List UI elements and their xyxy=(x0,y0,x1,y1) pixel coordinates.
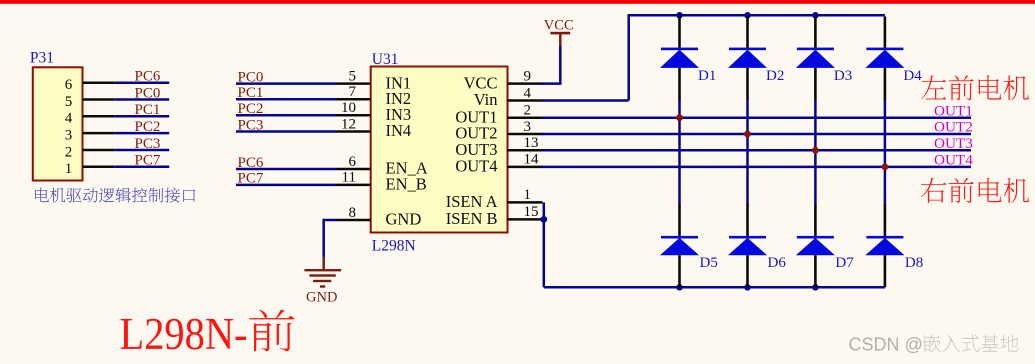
svg-text:11: 11 xyxy=(342,170,356,186)
wire U31 pin 8 to ground xyxy=(324,219,337,222)
svg-text:2: 2 xyxy=(65,144,73,160)
junction on bottom rail at D6 xyxy=(744,284,751,291)
U31 pin 7 (IN2) xyxy=(337,98,371,101)
svg-text:OUT4: OUT4 xyxy=(934,152,973,169)
svg-text:D2: D2 xyxy=(766,68,784,84)
svg-text:PC3: PC3 xyxy=(135,136,161,152)
wire net PC7 (to U31) xyxy=(236,184,337,187)
svg-text:D5: D5 xyxy=(700,255,718,271)
caption text 电机驱动逻辑控制接口 xyxy=(35,188,195,203)
svg-text:14: 14 xyxy=(524,152,540,168)
wire net PC7 (from P31 pin 1) xyxy=(115,166,169,169)
U31 pin 2 (OUT1) xyxy=(508,116,543,119)
svg-text:GND: GND xyxy=(386,210,422,229)
svg-text:1: 1 xyxy=(524,187,532,203)
wire net PC6 (to U31) xyxy=(236,168,337,171)
junction on rail at D2 xyxy=(744,12,751,19)
wire net PC6 (from P31 pin 6) xyxy=(115,81,169,84)
U31 pin 12 (IN4) xyxy=(337,130,371,133)
svg-text:PC7: PC7 xyxy=(135,153,161,169)
junction on rail at D1 xyxy=(676,12,683,19)
wire net PC2 (to U31) xyxy=(236,114,337,117)
diode D7 xyxy=(814,204,817,236)
op-amp/driver IC U31 (L298N) body xyxy=(371,67,508,233)
wire net PC1 (from P31 pin 4) xyxy=(115,115,169,118)
wire D4/D8 to OUT4 xyxy=(884,99,887,205)
svg-text:OUT3: OUT3 xyxy=(934,135,973,152)
diode D6 xyxy=(746,204,749,236)
svg-text:PC0: PC0 xyxy=(135,85,161,101)
text 右前电机 (right front motor) xyxy=(921,178,1029,203)
svg-text:12: 12 xyxy=(341,116,356,132)
title text 前 xyxy=(249,310,294,352)
svg-text:13: 13 xyxy=(524,135,539,151)
svg-text:L298N: L298N xyxy=(372,238,416,255)
diode D1 xyxy=(678,17,681,48)
diode D8 xyxy=(884,204,887,236)
svg-text:4: 4 xyxy=(524,85,532,101)
connector P31 xyxy=(33,67,83,180)
junction on bottom rail at D7 xyxy=(812,284,819,291)
wire D1/D5 to OUT1 xyxy=(678,99,681,205)
wire net OUT4 xyxy=(542,166,972,169)
text 左前电机 (left front motor) xyxy=(921,75,1029,100)
svg-text:1: 1 xyxy=(65,161,73,177)
P31 pin 4 xyxy=(83,115,115,118)
svg-text:PC2: PC2 xyxy=(135,119,161,135)
U31 pin 5 (IN1) xyxy=(337,82,371,85)
svg-text:D4: D4 xyxy=(903,68,922,84)
svg-text:6: 6 xyxy=(349,154,357,170)
junction OUT3 x diode column xyxy=(812,147,819,154)
svg-text:3: 3 xyxy=(65,127,73,143)
P31 pin 5 xyxy=(83,98,115,101)
svg-text:PC1: PC1 xyxy=(238,85,264,101)
svg-text:6: 6 xyxy=(65,77,73,93)
svg-text:10: 10 xyxy=(341,100,356,116)
junction at ISEN B xyxy=(540,216,547,223)
P31 pin 1 xyxy=(83,166,115,169)
svg-text:PC1: PC1 xyxy=(135,102,161,118)
svg-text:7: 7 xyxy=(349,84,357,100)
wire D2/D6 to OUT2 xyxy=(746,99,749,205)
wire U31 pin 1 (ISEN A) down to ISEN B xyxy=(543,202,546,219)
U31 pin 3 (OUT2) xyxy=(508,133,543,136)
U31 pin 4 (Vin) xyxy=(508,99,543,102)
wire bottom rail (diode anodes) xyxy=(544,286,885,289)
svg-text:CSDN @: CSDN @ xyxy=(849,335,923,355)
U31 pin 13 (OUT3) xyxy=(508,149,543,152)
svg-text:4: 4 xyxy=(65,111,73,127)
svg-text:PC3: PC3 xyxy=(238,117,264,133)
svg-text:9: 9 xyxy=(524,68,532,84)
svg-text:PC6: PC6 xyxy=(135,69,161,85)
svg-text:D8: D8 xyxy=(905,255,923,271)
wire net OUT2 xyxy=(542,133,972,136)
svg-text:D3: D3 xyxy=(834,68,852,84)
wire top rail (diode cathodes) xyxy=(628,14,885,17)
svg-text:ISEN B: ISEN B xyxy=(446,209,498,228)
svg-text:GND: GND xyxy=(306,289,337,305)
wire net PC2 (from P31 pin 3) xyxy=(115,132,169,135)
wire U31 pin 4 (Vin) to diode top rail xyxy=(542,99,629,102)
svg-text:IN4: IN4 xyxy=(386,121,412,140)
wire ISEN B down to bottom rail xyxy=(543,219,546,287)
ground symbol xyxy=(322,257,325,271)
svg-text:D1: D1 xyxy=(698,68,716,84)
P31 pin 2 xyxy=(83,149,115,152)
svg-text:15: 15 xyxy=(524,204,539,220)
svg-text:D7: D7 xyxy=(835,255,854,271)
svg-text:8: 8 xyxy=(349,205,357,221)
U31 pin 10 (IN3) xyxy=(337,114,371,117)
wire net OUT1 xyxy=(542,116,972,119)
U31 pin 9 (VCC) xyxy=(508,82,543,85)
svg-text:Vin: Vin xyxy=(474,90,498,109)
svg-text:D6: D6 xyxy=(768,255,787,271)
wire net PC0 (to U31) xyxy=(236,82,337,85)
svg-text:5: 5 xyxy=(65,94,73,110)
svg-text:EN_B: EN_B xyxy=(386,175,427,194)
svg-text:PC7: PC7 xyxy=(238,171,264,187)
wire D3/D7 to OUT3 xyxy=(814,99,817,205)
U31 pin 14 (OUT4) xyxy=(508,166,543,169)
svg-text:PC0: PC0 xyxy=(238,69,264,85)
wire net PC3 (to U31) xyxy=(236,130,337,133)
wire net PC0 (from P31 pin 5) xyxy=(115,98,169,101)
wire net OUT3 xyxy=(542,149,972,152)
svg-text:P31: P31 xyxy=(30,49,54,66)
watermark 嵌入式基地 xyxy=(923,334,1019,352)
svg-text:OUT2: OUT2 xyxy=(934,119,973,136)
svg-text:3: 3 xyxy=(524,119,532,135)
P31 pin 6 xyxy=(83,81,115,84)
U31 pin 1 (ISEN A) xyxy=(508,201,543,204)
svg-text:L298N-: L298N- xyxy=(120,309,248,359)
svg-text:OUT4: OUT4 xyxy=(455,157,497,176)
diode D5 xyxy=(678,204,681,236)
junction OUT2 x diode column xyxy=(744,131,751,138)
svg-text:OUT1: OUT1 xyxy=(934,102,973,119)
wire net PC3 (from P31 pin 2) xyxy=(115,149,169,152)
junction OUT4 x diode column xyxy=(882,164,889,171)
svg-text:2: 2 xyxy=(524,103,532,119)
U31 pin 15 (ISEN B) xyxy=(508,218,543,221)
junction on rail at D3 xyxy=(812,12,819,19)
U31 pin 11 (EN_B) xyxy=(337,184,371,187)
U31 pin 8 (GND) xyxy=(337,219,371,222)
U31 pin 6 (EN_A) xyxy=(337,168,371,171)
sheet border (top) xyxy=(0,0,1035,4)
P31 pin 3 xyxy=(83,132,115,135)
diode D4 xyxy=(884,17,887,48)
diode D2 xyxy=(746,17,749,48)
wire net PC1 (to U31) xyxy=(236,98,337,101)
svg-text:VCC: VCC xyxy=(544,17,574,33)
wire VCC to U31 pin 9 xyxy=(559,46,562,84)
diode D3 xyxy=(814,17,817,48)
svg-text:PC6: PC6 xyxy=(238,155,264,171)
svg-text:U31: U31 xyxy=(372,51,399,68)
svg-text:5: 5 xyxy=(349,68,357,84)
power symbol VCC xyxy=(550,32,570,35)
svg-text:PC2: PC2 xyxy=(238,101,264,117)
junction on bottom rail at D5 xyxy=(676,284,683,291)
junction OUT1 x diode column xyxy=(676,114,683,121)
